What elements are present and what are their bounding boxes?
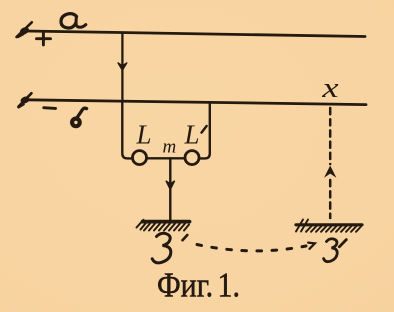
terminal slash on line b — [19, 93, 32, 107]
svg-text:m: m — [163, 137, 177, 158]
minus sign (-) — [44, 106, 56, 110]
wire: drop from node m to earth — [169, 158, 171, 220]
earth electrode 3' (right ground) — [296, 220, 362, 232]
wire: right branch from line b to coil L' — [199, 104, 210, 158]
svg-text:x: x — [321, 73, 339, 104]
svg-text:L: L — [136, 120, 152, 150]
label a — [61, 14, 77, 28]
label 3' (earth right) — [324, 239, 338, 262]
earth electrode 3 (left ground) — [137, 220, 190, 231]
plus sign (+) — [37, 33, 51, 45]
svg-text:Фиг.: Фиг. — [157, 266, 213, 305]
dotted current path from earth 3 to earth 3' — [183, 235, 188, 240]
wire: bus line b — [26, 100, 367, 105]
coil L' (right circle) — [185, 151, 199, 165]
arrowhead down on drop wire — [118, 63, 127, 71]
label b — [77, 108, 87, 118]
coil L (left circle) — [133, 151, 147, 165]
dashed wire from x down to earth 3' — [329, 108, 332, 218]
wire: vertical drop from line a to line b — [121, 33, 123, 103]
wire: bus line a — [26, 31, 366, 37]
wire: left branch from line b to coil L — [122, 103, 133, 159]
terminal slash on line a — [17, 22, 32, 37]
svg-text:L: L — [184, 120, 200, 150]
svg-text:1.: 1. — [218, 266, 241, 305]
label 3 (earth left) — [152, 233, 171, 263]
arrowhead toward 3' — [308, 243, 315, 249]
arrowhead down on earth drop — [166, 181, 175, 190]
arrowhead up on dashed wire — [326, 167, 335, 176]
wire between coils through node m — [147, 157, 185, 159]
